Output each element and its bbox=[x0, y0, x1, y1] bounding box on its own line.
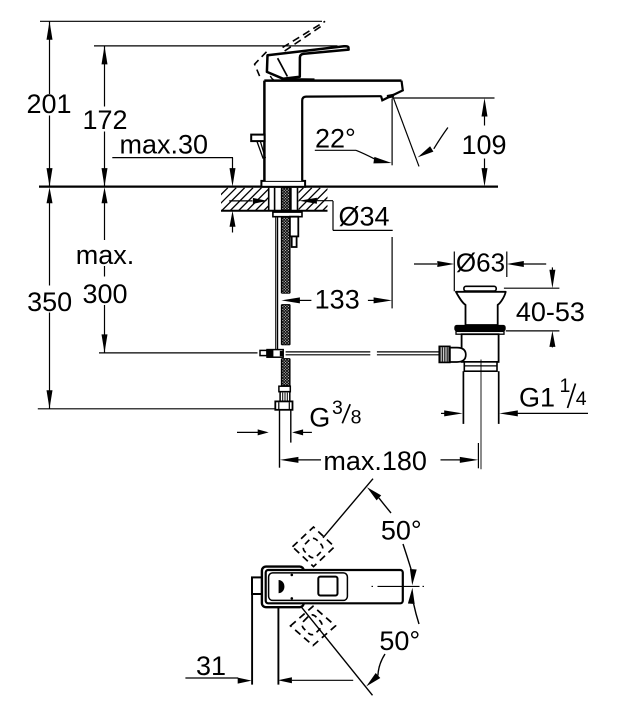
svg-text:31: 31 bbox=[196, 651, 226, 681]
svg-text:max.30: max.30 bbox=[120, 130, 209, 160]
svg-text:40-53: 40-53 bbox=[516, 297, 585, 327]
svg-text:22°: 22° bbox=[315, 124, 356, 154]
svg-text:8: 8 bbox=[351, 407, 362, 429]
svg-text:350: 350 bbox=[27, 287, 72, 317]
svg-text:3: 3 bbox=[332, 397, 343, 419]
svg-text:50°: 50° bbox=[379, 626, 420, 656]
svg-text:50°: 50° bbox=[381, 515, 422, 545]
svg-text:G: G bbox=[309, 403, 330, 433]
svg-text:max.180: max.180 bbox=[323, 446, 427, 476]
svg-text:109: 109 bbox=[461, 130, 506, 160]
svg-text:133: 133 bbox=[315, 285, 360, 315]
svg-text:max.: max. bbox=[76, 240, 135, 270]
svg-text:Ø34: Ø34 bbox=[339, 202, 390, 232]
svg-text:1: 1 bbox=[560, 375, 571, 397]
svg-text:Ø63: Ø63 bbox=[456, 247, 505, 277]
svg-text:300: 300 bbox=[82, 279, 127, 309]
svg-text:4: 4 bbox=[576, 388, 587, 410]
svg-text:G1: G1 bbox=[519, 382, 555, 412]
svg-text:201: 201 bbox=[26, 89, 71, 119]
